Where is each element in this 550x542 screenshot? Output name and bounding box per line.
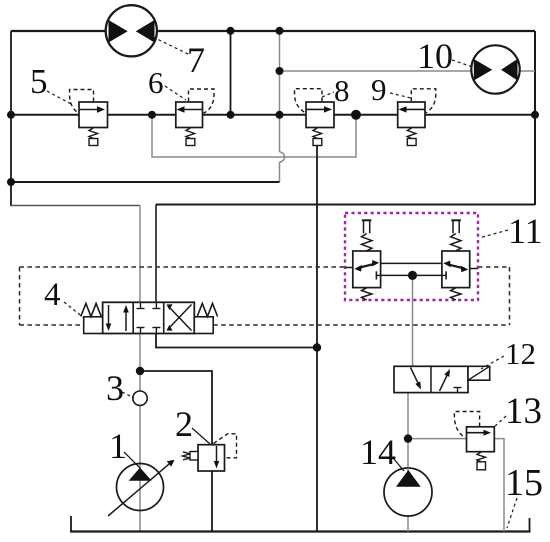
wire vertical x=279.5 upper: [279, 31, 281, 152]
svg-text:7: 7: [187, 40, 205, 80]
solenoid box: [468, 366, 490, 380]
node 3 check point circle: [133, 391, 147, 405]
wire valve4 T-port to drain: [156, 334, 317, 348]
label 2 leader: [192, 428, 210, 444]
right valve springs: [451, 234, 461, 251]
wire hop arc over wire A: [280, 152, 285, 162]
wire valve13 right to tank: [494, 439, 504, 532]
wire tank upstand left: [70, 516, 72, 532]
motor 7: [106, 5, 157, 56]
wire left frame x=11: [10, 31, 12, 206]
svg-text:11: 11: [508, 211, 543, 251]
wire tank line y=531: [70, 530, 531, 532]
box 11 pilot valves: [345, 213, 478, 300]
node junction: [408, 271, 417, 280]
magenta dashed enclosure: [345, 213, 478, 300]
svg-text:15: 15: [505, 462, 543, 504]
svg-text:2: 2: [175, 404, 193, 444]
svg-text:5: 5: [30, 62, 48, 101]
wire D to relief valve 2: [140, 371, 212, 445]
svg-text:8: 8: [334, 73, 350, 108]
label 6 leader: [165, 86, 186, 100]
svg-text:10: 10: [417, 36, 453, 76]
left valve springs: [362, 234, 372, 251]
label 14 leader: [393, 458, 404, 471]
svg-text:4: 4: [44, 277, 61, 313]
valve 13: [454, 412, 494, 470]
label 13 leader: [493, 416, 506, 428]
junction dots: [7, 111, 15, 119]
wire A drain of valves 5,6: [152, 115, 356, 157]
pump 14: [384, 468, 432, 516]
svg-text:6: 6: [148, 65, 164, 100]
pilot line dashed loop top: [20, 266, 346, 268]
pilot line dashed loop bottom: [20, 324, 84, 326]
wire top bus y=31: [11, 30, 535, 32]
svg-text:14: 14: [360, 432, 396, 472]
motor 10: [471, 45, 519, 93]
wire main line y=115: [11, 114, 535, 116]
connecting line upper: [381, 262, 442, 264]
wire valve4 B-port up x=156: [155, 205, 157, 303]
wire valve4 P-port down x=140: [139, 334, 141, 372]
wire valve8 drain x=317: [316, 146, 318, 532]
wire vertical x=230.5: [230, 31, 232, 115]
valve 4 directional 4/3: [81, 302, 218, 333]
label 11 leader: [479, 230, 508, 238]
pilot line dashed loop left: [19, 267, 21, 325]
svg-text:13: 13: [505, 391, 542, 432]
wire tank upstand right: [529, 518, 531, 532]
wire motor10 line y=71: [280, 70, 536, 72]
svg-text:3: 3: [106, 368, 124, 408]
label 10 leader: [452, 60, 473, 67]
valve 9: [398, 89, 436, 146]
label 5 leader: [47, 91, 73, 105]
left spring: [81, 304, 101, 317]
left box arrows: [108, 305, 110, 325]
valve 5: [70, 90, 108, 146]
label 15 leader: [507, 498, 517, 528]
wire valve12 down to node: [407, 393, 409, 439]
wire valve4 A-port up x=140: [139, 206, 141, 303]
pilot line dashed loop right: [509, 267, 511, 325]
label 4 leader: [64, 302, 84, 318]
left valve body: [353, 251, 381, 288]
wire vertical x=279.5 lower: [279, 162, 281, 182]
right port stub: [470, 268, 478, 270]
wire box11 to valve12: [412, 275, 414, 366]
right spring: [197, 304, 217, 317]
relief valve 2: [183, 434, 237, 471]
right valve body: [442, 251, 470, 288]
wire y=205 right segment: [156, 204, 535, 206]
svg-text:1: 1: [109, 426, 127, 466]
wire B y=182: [11, 181, 280, 183]
label 9 leader: [390, 93, 411, 98]
right box crossed arrows: [171, 309, 192, 331]
wire y=205 left segment: [11, 205, 140, 207]
label 8 leader: [322, 92, 334, 97]
svg-text:9: 9: [371, 72, 387, 107]
valve 8: [295, 89, 335, 146]
wire node to valve13: [408, 438, 467, 440]
wire pump14 stem: [407, 439, 409, 532]
pump 1 variable: [108, 460, 175, 516]
svg-text:12: 12: [505, 336, 536, 371]
label 3 leader: [122, 392, 134, 398]
left pilot block: [84, 317, 103, 334]
label 7 leader: [153, 37, 190, 55]
left port stub: [345, 267, 353, 269]
right pilot block: [194, 317, 213, 334]
valve 6: [176, 89, 214, 146]
left valve pin: [362, 219, 372, 221]
right valve pin: [451, 219, 461, 221]
wire right frame x=535: [534, 31, 536, 205]
label 12 leader: [481, 356, 504, 369]
wire pump1 stem: [139, 371, 141, 532]
connecting line lower: [381, 274, 442, 276]
valve 12 directional: [394, 366, 490, 392]
label 1 leader: [124, 452, 140, 468]
center box blocked ports: [140, 302, 142, 308]
wire valve2 to tank: [211, 471, 213, 532]
